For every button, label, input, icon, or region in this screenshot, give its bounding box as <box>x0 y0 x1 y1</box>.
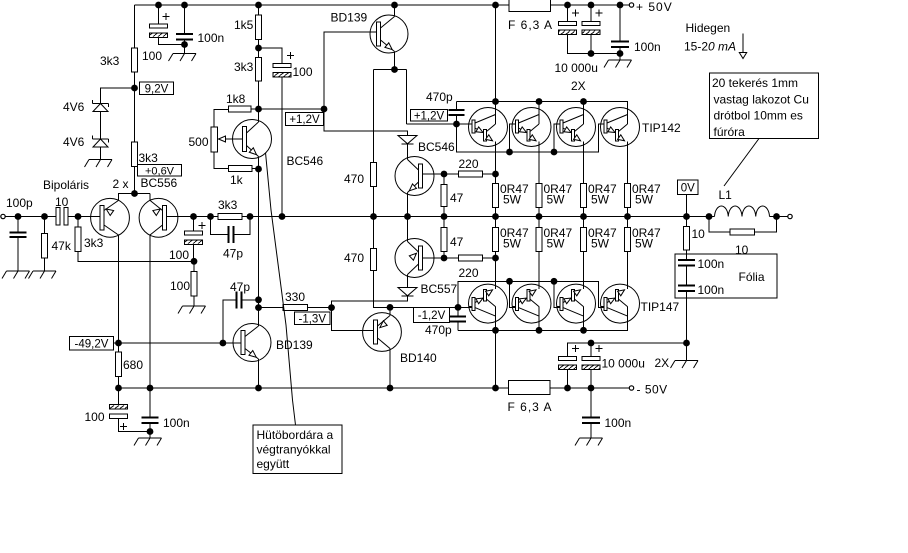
wire +1,2V node to output bases <box>407 123 473 125</box>
svg-text:330: 330 <box>285 290 305 304</box>
wire BD140 base drop <box>332 308 374 331</box>
resistor 0R47 5W (upper #1) <box>493 182 530 208</box>
junction 330 right / BD140 base node <box>328 304 335 311</box>
junction 470p lower at -1,2V node <box>455 304 462 311</box>
svg-text:5W: 5W <box>635 237 654 251</box>
junction -50V rail at VAS emitter <box>255 385 262 392</box>
transistor TIP142 #4 <box>601 101 640 153</box>
junction 470 upper at rail <box>370 213 377 220</box>
junction driver base upper <box>441 171 448 178</box>
resistor 220 (upper) <box>444 157 496 177</box>
resistor 47k to ground <box>42 217 72 272</box>
zener diode 4V6 (upper) <box>63 100 109 114</box>
junction BD140 emitter node <box>387 304 394 311</box>
label BD140 <box>400 351 437 365</box>
wire input line <box>5 216 56 218</box>
label Bipolaris <box>43 178 89 192</box>
svg-text:100: 100 <box>142 49 162 63</box>
wire to zener stack <box>101 88 135 104</box>
resistor 0R47 5W (lower #1) <box>493 226 530 252</box>
junction on +50V rail at first 10000u cap <box>564 2 571 9</box>
svg-text:+1,2V: +1,2V <box>289 114 320 126</box>
svg-text:100n: 100n <box>605 416 632 430</box>
junction base chain riser 3 <box>551 149 558 156</box>
svg-text:4V6: 4V6 <box>63 100 85 114</box>
junction base column <box>321 106 328 113</box>
svg-text:együtt: együtt <box>257 457 290 471</box>
label BD139 (VAS) <box>276 338 313 352</box>
junction 220 upper at emitter column <box>492 171 499 178</box>
capacitor 100n (bottom) <box>582 388 631 438</box>
wire TIP147 #2 emitter column <box>538 217 540 285</box>
pointer line to L1 <box>724 139 759 187</box>
svg-text:220: 220 <box>459 157 479 171</box>
wire TIP147 #4 emitter column <box>627 217 629 285</box>
resistor 10 parallel to L1 <box>709 217 777 258</box>
junction on +50V rail at second 10000u cap <box>588 2 595 9</box>
resistor 0R47 5W (upper #3) <box>581 182 618 208</box>
junction 100u/100n to ground <box>181 41 188 48</box>
trimmer 500 <box>189 110 243 169</box>
ground (feedback 100) <box>178 306 206 314</box>
wire base Q1 <box>78 216 100 218</box>
junction -50V rail at cap2 <box>588 385 595 392</box>
junction 330 left / VAS collector <box>255 304 262 311</box>
label BC556 2x <box>113 176 178 191</box>
resistor 1k8 <box>226 92 259 112</box>
ground (47k) <box>29 271 57 279</box>
transistor TIP142 #1 <box>469 101 508 153</box>
wire output center rail <box>242 216 709 218</box>
wire -1,2V node <box>390 306 473 308</box>
svg-text:5W: 5W <box>503 237 522 251</box>
fuse F 6,3 A (bottom) <box>508 381 553 415</box>
diode BC546 (upper bias diode) <box>398 136 455 155</box>
svg-text:fúróra: fúróra <box>714 125 746 139</box>
resistor 470 (lower) <box>344 217 390 308</box>
wire -50V rail <box>119 387 630 389</box>
wire emitter tee <box>119 194 151 201</box>
ground (bottom 100n) <box>575 438 603 446</box>
svg-text:BD139: BD139 <box>331 11 368 25</box>
svg-text:100p: 100p <box>6 196 33 210</box>
wire TIP147 #3 emitter column <box>583 217 585 285</box>
wire TIP142 #3 emitter column <box>583 147 585 217</box>
svg-text:+ 50V: + 50V <box>636 0 673 14</box>
junction 220 lower at emitter column <box>492 255 499 262</box>
svg-text:500: 500 <box>189 135 209 149</box>
svg-text:BD139: BD139 <box>276 338 313 352</box>
junction center rail x=583.5 <box>580 213 587 220</box>
resistor 0R47 5W (lower #3) <box>581 226 618 252</box>
svg-text:végtranyókkal: végtranyókkal <box>257 443 331 457</box>
svg-text:100n: 100n <box>698 283 725 297</box>
svg-text:TIP147: TIP147 <box>641 300 680 314</box>
wire to bias diode (upper) <box>324 109 408 136</box>
svg-text:3k3: 3k3 <box>84 236 104 250</box>
resistor 10 Zobel <box>684 217 706 261</box>
svg-text:680: 680 <box>123 358 143 372</box>
svg-text:9,2V: 9,2V <box>145 83 169 95</box>
capacitor 10000u (top pair #2) <box>582 5 620 54</box>
junction base node Q1 <box>75 213 82 220</box>
svg-text:3k3: 3k3 <box>234 60 254 74</box>
wire TIP147 #1 emitter column <box>495 217 497 285</box>
wire VAS collector column <box>258 169 260 324</box>
wire 0V stem <box>686 195 688 217</box>
svg-text:47k: 47k <box>52 239 72 253</box>
svg-text:3k3: 3k3 <box>139 151 159 165</box>
resistor 3k3 (input shunt) <box>75 217 194 262</box>
label box -49,2V <box>70 337 114 351</box>
svg-text:470: 470 <box>344 172 364 186</box>
junction BD139 emitter node <box>391 66 398 73</box>
junction TIP147 collector rail 2 <box>536 327 543 334</box>
label L1 <box>719 188 733 202</box>
terminal -50V <box>629 383 667 397</box>
note box 20 tekeres <box>710 73 819 139</box>
junction feedback shunt node <box>191 258 198 265</box>
wire +50V riser to collector rail <box>495 5 497 102</box>
junction ground star <box>683 340 690 347</box>
ground (top-left) <box>169 45 197 62</box>
svg-text:220: 220 <box>459 266 479 280</box>
label BC546 (multiplier) <box>287 154 324 168</box>
junction center rail x=407.5 <box>404 213 411 220</box>
ground (zener stack) <box>85 147 113 167</box>
capacitor 100n Zobel 1 <box>678 257 724 286</box>
junction feedback R/C left <box>207 213 214 220</box>
transistor Q1 BC556 (input left) <box>91 198 130 343</box>
capacitor 100n (lower-left) <box>142 388 190 432</box>
resistor 0R47 5W (lower #2) <box>536 226 573 252</box>
junction driver base lower <box>441 255 448 262</box>
svg-text:15-2: 15-2 <box>684 40 708 54</box>
wire to output terminal <box>777 216 788 218</box>
junction bootstrap cap at rail <box>279 213 286 220</box>
junction on +50V rail at output stage riser <box>492 2 499 9</box>
junction -50V rail at BD140 collector <box>387 385 394 392</box>
wire multiplier top to BD139 base column <box>259 108 325 110</box>
svg-text:47p: 47p <box>223 247 243 261</box>
label TIP142 <box>642 121 681 135</box>
junction top supply caps <box>588 50 595 57</box>
capacitor 100u feedback <box>169 217 206 263</box>
junction 47p comp top <box>255 296 262 303</box>
svg-text:100n: 100n <box>198 31 225 45</box>
wire +50V top rail <box>135 4 630 6</box>
svg-text:Hidegen: Hidegen <box>686 21 731 35</box>
wire collector rail TIP147 <box>458 323 628 331</box>
wire TIP147 collector riser to -50V <box>495 330 497 388</box>
label box +0,6V <box>138 165 182 178</box>
svg-text:F 6,3 A: F 6,3 A <box>508 400 553 414</box>
node 9,2V junction <box>131 85 138 92</box>
pointer line to heatsink note <box>266 153 296 426</box>
transistor BD139 (top driver) <box>370 5 408 70</box>
svg-text:100: 100 <box>293 65 313 79</box>
junction center rail x=539 <box>536 213 543 220</box>
junction -49,2V node <box>115 340 122 347</box>
junction collector rail 3 <box>580 98 587 105</box>
capacitor 10000u (lower pair #2) <box>582 343 603 388</box>
ground (star point) <box>671 343 699 368</box>
svg-text:TIP142: TIP142 <box>642 121 681 135</box>
resistor 3k3 (from +50V, left) <box>100 5 138 88</box>
svg-text:5W: 5W <box>591 193 610 207</box>
junction center rail x=627.5 <box>624 213 631 220</box>
ground (100p) <box>2 271 30 279</box>
svg-text:+1,2V: +1,2V <box>414 110 445 122</box>
resistor 1k <box>229 166 259 187</box>
ground (lower-left) <box>134 432 162 446</box>
svg-text:10: 10 <box>735 243 749 257</box>
junction -50V rail at cap1 <box>564 385 571 392</box>
wire -49,2V line <box>113 342 223 344</box>
junction L1 right <box>773 213 780 220</box>
label box +1,2V (right) <box>411 110 448 123</box>
capacitor 47p feedback <box>211 217 251 261</box>
svg-text:5W: 5W <box>503 193 522 207</box>
resistor 0R47 5W (upper #2) <box>536 182 573 208</box>
junction -50V rail at TIP147 riser <box>492 385 499 392</box>
svg-text:1k: 1k <box>230 173 244 187</box>
junction 470p upper at base node <box>453 121 460 128</box>
junction center rail x=495.5 <box>492 213 499 220</box>
note box Hutobordara <box>253 425 342 474</box>
svg-text:20 tekerés 1mm: 20 tekerés 1mm <box>712 76 798 90</box>
svg-text:4V6: 4V6 <box>63 135 85 149</box>
junction input at 100p <box>15 213 22 220</box>
resistor 3k3 (emitter feed of input pair) <box>132 88 159 194</box>
junction on +50V rail at 3k3 branch <box>155 2 162 9</box>
svg-text:3k3: 3k3 <box>218 198 238 212</box>
svg-text:2X: 2X <box>571 79 586 93</box>
ground (top right) <box>604 54 632 68</box>
transistor TIP147 #2 <box>512 278 551 330</box>
capacitor 100n (top-left) <box>176 5 224 45</box>
wire emitter node branches <box>374 70 407 163</box>
junction top 100n ground <box>617 50 624 57</box>
resistor 3k3 bootstrap lower <box>234 48 262 109</box>
svg-text:BC556: BC556 <box>141 176 178 190</box>
svg-text:L1: L1 <box>719 188 733 202</box>
resistor 47 (lower) <box>441 217 464 259</box>
svg-text:Fólia: Fólia <box>739 270 765 284</box>
wire between zeners <box>100 112 102 140</box>
svg-text:47: 47 <box>450 235 464 249</box>
transistor TIP142 #2 <box>512 101 551 153</box>
transistor Q2 BC556 (input right) <box>139 198 178 388</box>
capacitor 100u (top-left electrolytic) <box>142 5 185 63</box>
wire TIP142 #2 emitter column <box>538 147 540 217</box>
node Vbe multiplier top <box>255 106 262 113</box>
wire lower diode to 330 node <box>332 296 408 308</box>
svg-text:-1,2V: -1,2V <box>418 310 446 322</box>
junction collector rail 2 <box>536 98 543 105</box>
capacitor 10000u (lower pair #1) <box>559 345 580 388</box>
capacitor 100n (top right) <box>611 5 661 54</box>
svg-text:BC546: BC546 <box>287 154 324 168</box>
capacitor 100p to ground <box>6 196 33 271</box>
junction -50V rail at 100n <box>147 385 154 392</box>
label BD139 <box>331 11 368 25</box>
label TIP147 <box>641 300 680 314</box>
wire TIP147 base daisy chain <box>458 281 604 307</box>
svg-text:10: 10 <box>692 227 706 241</box>
svg-text:0V: 0V <box>681 182 695 194</box>
resistor 1k5 from +50V <box>234 5 262 48</box>
svg-text:100n: 100n <box>698 257 725 271</box>
zener diode 4V6 (lower) <box>63 135 109 149</box>
capacitor 47p compensation <box>223 280 259 343</box>
transistor TIP147 #1 <box>469 278 508 330</box>
svg-text:BC546: BC546 <box>418 140 455 154</box>
svg-text:2 x: 2 x <box>113 177 129 191</box>
junction lower-left ground node <box>147 428 154 435</box>
transistor TIP142 #3 <box>557 101 596 153</box>
svg-text:47: 47 <box>450 191 464 205</box>
label box 0V <box>678 180 699 195</box>
box Folia <box>675 254 777 298</box>
resistor 220 (lower) <box>444 255 496 280</box>
svg-text:100n: 100n <box>163 416 190 430</box>
svg-text:1k8: 1k8 <box>226 92 246 106</box>
junction feedback cap 100u <box>190 213 197 220</box>
inductor L1 <box>711 206 777 217</box>
wire TIP142 #4 emitter column <box>627 147 629 217</box>
wire ground star to supply caps <box>568 343 687 357</box>
svg-text:47p: 47p <box>230 280 250 294</box>
svg-text:1k5: 1k5 <box>234 18 254 32</box>
wire TIP142 #1 emitter column <box>495 147 497 217</box>
svg-text:100: 100 <box>85 410 105 424</box>
junction -50V rail at 680 <box>115 385 122 392</box>
svg-text:F 6,3 A: F 6,3 A <box>508 18 553 32</box>
label 10 000u 2X (lower) <box>602 356 670 371</box>
svg-text:100: 100 <box>170 279 190 293</box>
svg-text:100: 100 <box>169 248 189 262</box>
junction L1 left <box>706 213 713 220</box>
arrow idle current <box>739 34 746 59</box>
transistor BD139 (VAS, lower left) <box>223 324 271 389</box>
svg-text:vastag lakozot Cu: vastag lakozot Cu <box>714 92 809 106</box>
svg-text:0 mA: 0 mA <box>708 40 736 54</box>
node input pair common emitters <box>131 190 138 197</box>
junction TIP147 collector rail 3 <box>580 327 587 334</box>
svg-text:10 000u: 10 000u <box>555 61 598 75</box>
resistor 0R47 5W (upper #4) <box>625 182 662 208</box>
resistor 3k3 feedback <box>218 198 242 220</box>
transistor BC546 (upper driver) <box>395 144 444 217</box>
junction on +50V rail at 100n cap <box>617 2 624 9</box>
junction supply cap 2 top <box>588 340 595 347</box>
wire base Q2 to feedback <box>167 216 219 218</box>
resistor 0R47 5W (lower #4) <box>625 226 662 252</box>
transistor TIP147 #3 <box>557 278 596 330</box>
capacitor 470p (lower) <box>425 307 466 337</box>
junction bootstrap tap <box>255 45 262 52</box>
svg-text:drótbol 10mm es: drótbol 10mm es <box>714 109 803 123</box>
transistor BD140 <box>363 307 402 388</box>
svg-text:-1,3V: -1,3V <box>299 313 327 325</box>
svg-text:5W: 5W <box>591 237 610 251</box>
junction input at 47k <box>41 213 48 220</box>
svg-text:10: 10 <box>55 195 69 209</box>
svg-text:100n: 100n <box>634 40 661 54</box>
transistor BC557 (lower driver) <box>395 217 444 288</box>
label box +1,2V (left) <box>286 113 324 127</box>
junction on +50V rail at 100n branch <box>181 2 188 9</box>
label box -1,3V <box>295 312 331 325</box>
junction multiplier emitter <box>255 166 262 173</box>
svg-text:Bipoláris: Bipoláris <box>43 178 89 192</box>
capacitor 100 (lower-left electrolytic, reversed) <box>85 388 151 432</box>
junction feedback R/C right <box>247 213 254 220</box>
output terminal <box>788 214 792 218</box>
svg-text:5W: 5W <box>547 237 566 251</box>
junction TIP147 base chain 3 <box>551 278 558 285</box>
svg-text:2X: 2X <box>655 356 670 370</box>
junction collector rail 1 <box>492 98 499 105</box>
junction base chain riser 2 <box>506 149 513 156</box>
junction on +50V rail at 1k5 branch <box>255 2 262 9</box>
capacitor 470p (upper) <box>426 90 465 124</box>
transistor BC546 Vbe multiplier <box>233 109 272 169</box>
junction VAS base <box>220 340 227 347</box>
svg-text:BC557: BC557 <box>421 282 458 296</box>
label 10 000u 2X (top) <box>555 61 598 93</box>
resistor 47 (upper) <box>441 174 464 217</box>
diode BC557 (lower bias diode) <box>398 282 458 296</box>
capacitor 10 bipolar coupling <box>55 195 78 225</box>
svg-text:BD140: BD140 <box>400 351 437 365</box>
junction rail at 0V/Zobel <box>683 213 690 220</box>
junction center rail x=444 <box>441 213 448 220</box>
wire collector rail TIP142 <box>457 102 628 108</box>
svg-text:470: 470 <box>344 251 364 265</box>
svg-text:470p: 470p <box>425 323 452 337</box>
capacitor 100u bootstrap <box>259 48 313 217</box>
label box -1,2V <box>414 307 450 322</box>
svg-text:-49,2V: -49,2V <box>75 338 109 350</box>
capacitor 100n Zobel 2 <box>678 283 724 343</box>
junction TIP147 collector rail 1 <box>492 327 499 334</box>
wire TIP142 base daisy chain <box>457 124 605 152</box>
svg-text:10 000u: 10 000u <box>602 357 645 371</box>
capacitor 10000u (top pair #1) <box>559 5 592 54</box>
svg-text:Hütöbordára a: Hütöbordára a <box>257 428 334 442</box>
resistor 680 <box>116 343 144 388</box>
resistor 330 <box>259 290 332 311</box>
junction on +50V rail at BD139 collector <box>391 2 398 9</box>
svg-text:3k3: 3k3 <box>100 54 120 68</box>
transistor TIP147 #4 <box>601 278 640 330</box>
fuse F 6,3 A (top) <box>508 0 553 32</box>
input terminal <box>1 214 5 218</box>
svg-text:5W: 5W <box>547 193 566 207</box>
label box 9,2V <box>140 82 174 95</box>
svg-text:470p: 470p <box>426 90 453 104</box>
svg-text:- 50V: - 50V <box>637 383 668 397</box>
wire BD139 base <box>324 32 377 109</box>
terminal +50V <box>629 0 672 14</box>
svg-text:5W: 5W <box>635 193 654 207</box>
note Hidegen 15-20 mA <box>684 21 736 54</box>
junction TIP147 base chain 2 <box>506 278 513 285</box>
resistor 470 (upper, BD139 emitter to rail) <box>344 163 377 217</box>
resistor 100 feedback to ground <box>170 261 197 306</box>
